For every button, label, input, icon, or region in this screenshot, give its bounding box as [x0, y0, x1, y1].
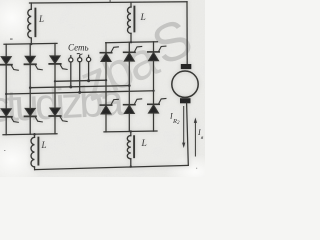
- junction terminal1 phase B: [69, 85, 72, 88]
- wire terminal3 down to phase C: [88, 62, 90, 81]
- watermark text: [0, 7, 201, 131]
- junction L4 to right bottom bus: [130, 130, 132, 132]
- wire right leg2 top: [128, 42, 130, 52]
- wire left leg3 bottom: [54, 116, 56, 134]
- wire mains terminal stubs: [70, 56, 72, 58]
- inductor L3 (bottom-left): [31, 134, 38, 169]
- terminal circle 2: [78, 58, 82, 62]
- arrow current I_R2 (down): [182, 107, 185, 149]
- junction phase A right leg3: [152, 90, 154, 92]
- wire terminal2 down to phase A: [79, 62, 81, 93]
- thyristor VS1 (left bridge top, leg1): [1, 57, 19, 70]
- thyristor VS9 (right bridge top, leg3): [148, 46, 166, 61]
- junction phase C right leg1: [105, 79, 107, 81]
- wire right leg2 middle: [128, 62, 130, 105]
- scan speckles: [4, 0, 197, 169]
- junction phase C left leg3: [54, 80, 56, 82]
- junction L4 to bottom rail: [130, 165, 132, 167]
- terminal circle 1: [69, 58, 73, 62]
- wire phase line C: [55, 80, 106, 81]
- thyristor VS2 (left bridge top, leg2): [25, 56, 43, 70]
- junction phase B right leg2: [128, 84, 131, 87]
- wire right bridge bottom bus: [104, 130, 157, 133]
- thyristor VS7 (right bridge top, leg1): [100, 47, 118, 62]
- wire left bridge top bus: [4, 42, 57, 45]
- junction L3 to left bottom bus: [33, 133, 36, 136]
- inductor L2 (top-right): [128, 3, 135, 43]
- wire left leg2 bottom: [29, 116, 31, 134]
- wire right drop to motor: [186, 2, 188, 65]
- wire top rail: [30, 2, 188, 3]
- wire right leg3 top: [153, 42, 155, 52]
- wire left leg2 middle: [29, 64, 31, 108]
- wire right leg2 bottom: [128, 114, 130, 132]
- wire left leg1 top: [5, 44, 7, 56]
- svg-text:Сеть: Сеть: [68, 43, 89, 53]
- wire right leg1 bottom: [105, 114, 107, 132]
- svg-text:L: L: [41, 140, 47, 150]
- terminal circle 3: [87, 57, 91, 61]
- wire left leg1 bottom: [5, 117, 7, 135]
- thyristor VS8 (right bridge top, leg2): [124, 47, 142, 62]
- motor M armature: [172, 64, 198, 103]
- junction phase A left leg1: [5, 93, 7, 95]
- wire motor bottom drop: [187, 103, 189, 165]
- wire right leg3 middle: [153, 61, 155, 104]
- junction phase B left leg2: [29, 86, 32, 89]
- junction terminal3 phase C: [87, 79, 90, 82]
- svg-text:L: L: [141, 139, 147, 149]
- thyristor VS11 (right bridge bottom, leg2): [124, 99, 142, 114]
- wire right leg3 bottom: [153, 114, 155, 132]
- wire left leg2 top: [29, 44, 31, 56]
- thyristor VS10 (right bridge bottom, leg1): [100, 99, 118, 114]
- arrow current I_d (up): [194, 118, 197, 157]
- AC tilde mark: [77, 53, 83, 54]
- wire left leg1 middle: [5, 65, 7, 109]
- inductor L1 (top-left): [28, 3, 36, 44]
- wire phase line B: [30, 86, 129, 88]
- wire right bridge top bus: [106, 42, 158, 43]
- wire right leg1 middle: [105, 62, 107, 105]
- wire left leg3 top: [54, 44, 56, 56]
- thyristor VS6 (left bridge bottom, leg3): [49, 108, 67, 122]
- paper background: [0, 0, 205, 177]
- wire right leg1 top: [105, 43, 107, 53]
- wire bottom rail: [35, 165, 189, 169]
- thyristor VS5 (left bridge bottom, leg2): [25, 108, 43, 122]
- wire phase line A: [6, 91, 153, 94]
- inductor L4 (bottom-right): [127, 132, 134, 168]
- thyristor VS3 (left bridge top, leg3): [49, 56, 67, 70]
- thyristor VS4 (left bridge bottom, leg1): [1, 109, 19, 123]
- wire left bridge bottom bus: [3, 133, 57, 136]
- svg-text:L: L: [38, 14, 44, 24]
- wire left leg3 middle: [54, 64, 56, 108]
- junction L1 to left top bus: [30, 43, 32, 45]
- wire terminal1 down to phase B: [70, 62, 72, 87]
- junction terminal2 phase A: [78, 91, 81, 94]
- junction L2 to right top bus: [130, 41, 132, 43]
- thyristor VS12 (right bridge bottom, leg3): [148, 99, 166, 114]
- svg-text:L: L: [140, 13, 146, 23]
